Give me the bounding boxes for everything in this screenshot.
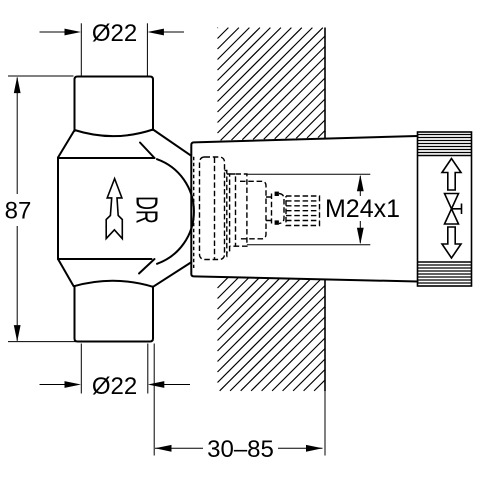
seal ring upper [275, 192, 279, 196]
hidden cartridge step 1 [225, 171, 227, 257]
valve symbol lower triangle [445, 209, 459, 224]
knurling top band [418, 135, 471, 153]
down arrow symbol [442, 227, 461, 258]
valve symbol upper triangle [445, 194, 459, 209]
valve body: bottom chamfer edge [139, 259, 155, 274]
protective sleeve (white fill body) [191, 136, 417, 282]
svg-text:Ø22: Ø22 [92, 20, 137, 47]
dimension Ø22 top: left arrow [40, 31, 67, 33]
hidden spindle neck [266, 194, 272, 224]
valve body: bottom pipe [75, 286, 154, 342]
dimension 30-85: line [155, 447, 203, 449]
valve body: top pipe [75, 77, 154, 132]
valve body: bottom shoulder curve [74, 281, 153, 287]
up arrow symbol [442, 159, 461, 191]
protective sleeve outline [191, 136, 417, 282]
dimension M24x1: arrows [357, 175, 364, 192]
valve body: left edge [57, 158, 59, 260]
valve body: cartridge boss arc [157, 159, 194, 264]
flow direction arrow symbol [106, 179, 122, 239]
valve body: top face edge [58, 157, 155, 159]
valve body: top right cone edge [153, 130, 192, 157]
valve body: bottom face edge [58, 258, 152, 260]
finished wall surface edge (upper) [324, 28, 326, 139]
hidden cartridge step 3 [230, 174, 236, 246]
svg-text:M24x1: M24x1 [325, 195, 400, 223]
svg-text:Ø22: Ø22 [92, 373, 137, 400]
finished wall surface edge (lower) [324, 279, 326, 391]
dimension 87: extension lines [8, 75, 74, 77]
dimension 30-85: extension lines [153, 344, 155, 456]
hidden spindle cup [240, 181, 266, 239]
valve body: bottom left cone edge [58, 259, 74, 286]
wall hatching top band [218, 28, 326, 141]
valve body: top left cone edge [58, 131, 74, 158]
hidden guard tube bore [214, 158, 216, 260]
hidden guard tube [200, 157, 225, 260]
seal ring lower [275, 220, 279, 224]
dimension Ø22 bottom: extension lines [80, 344, 82, 394]
hidden M24 thread outline [286, 196, 320, 226]
hidden cartridge step 2 [227, 174, 230, 252]
hidden spindle housing [236, 174, 247, 246]
knurling bottom band [418, 265, 471, 283]
dimension 30-85: arrows [155, 445, 172, 452]
outer housing box [418, 132, 472, 286]
valve body: top shoulder curve [75, 130, 154, 137]
dimension Ø22 top: right arrow [162, 31, 184, 33]
dimension Ø22 top: extension lines [80, 23, 82, 76]
wall hatching bottom band [218, 277, 326, 391]
hidden seal groove curve [279, 194, 284, 224]
valve body: bottom right cone edge [153, 262, 192, 287]
hidden M24 thread lines [286, 201, 320, 221]
dimension 87: arrows [14, 77, 21, 94]
dimension Ø22 bottom: right arrow [163, 384, 191, 386]
svg-text:87: 87 [5, 198, 32, 225]
dimension M24x1: line [359, 176, 361, 196]
valve symbol stem [452, 204, 462, 215]
hidden flange bore line [193, 157, 195, 268]
svg-text:DR: DR [129, 196, 162, 224]
dimension 87: line [16, 78, 18, 195]
dimension Ø22 bottom: left arrow [40, 384, 67, 386]
valve body: top chamfer edge [140, 143, 155, 159]
svg-text:30–85: 30–85 [207, 436, 274, 463]
dimension M24x1: extension lines [247, 173, 370, 175]
